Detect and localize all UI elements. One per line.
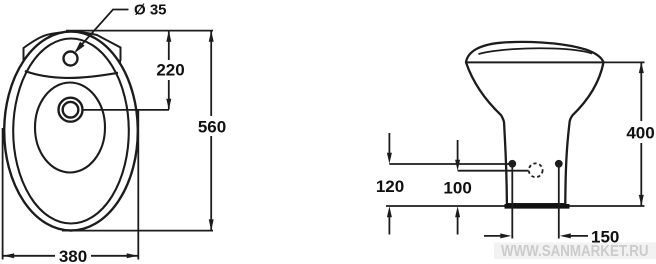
dimension 150: [484, 235, 588, 237]
outer rim ellipse: [4, 32, 138, 231]
bolt centre line right: [558, 164, 560, 239]
bottom extension line: [62, 230, 213, 232]
dimension 560 line: [210, 31, 212, 230]
bolt dot right: [555, 160, 563, 168]
drain level line (100): [458, 170, 529, 172]
svg-text:220: 220: [156, 61, 184, 80]
svg-text:120: 120: [376, 177, 404, 196]
220 arrows: [166, 31, 171, 42]
top surface back arc: [479, 48, 593, 54]
svg-text:400: 400: [626, 124, 654, 143]
rim line with right extension: [466, 61, 604, 63]
top extension line: [66, 30, 213, 32]
watermark: [494, 243, 656, 260]
bolt dot left: [508, 160, 516, 168]
drain outer circle: [59, 98, 83, 122]
560 arrows: [209, 31, 214, 42]
svg-text:380: 380: [59, 247, 87, 264]
svg-text:560: 560: [198, 118, 226, 137]
base thick bar: [505, 204, 570, 209]
leader arrowhead: [75, 42, 85, 53]
dimension 380 line: [3, 255, 137, 257]
tap centre extension line: [82, 109, 169, 111]
shelf (deck corners): [24, 32, 121, 72]
380 extension lines: [2, 128, 4, 260]
bolt centre line left: [511, 164, 513, 239]
dimension 120: [388, 133, 390, 235]
svg-text:WWW.SANMARKET.RU: WWW.SANMARKET.RU: [501, 243, 649, 260]
floor baseline: [386, 205, 645, 207]
basin oval: [35, 83, 105, 173]
tap hole (Ø35): [64, 52, 78, 66]
leader line for hole: [76, 10, 129, 52]
dimension 220 line: [168, 31, 170, 110]
drain inner circle: [63, 102, 79, 118]
bowl and pedestal outline: [466, 42, 604, 204]
dimension 100: [457, 140, 459, 235]
dimension 400: [640, 63, 642, 206]
dashed drain circle: [529, 163, 543, 177]
inlet level line (120): [389, 163, 509, 165]
380 arrows: [3, 253, 14, 258]
back edge wavy line: [25, 71, 118, 78]
svg-text:100: 100: [443, 179, 471, 198]
svg-text:Ø 35: Ø 35: [134, 2, 167, 19]
inner rim ellipse: [13, 39, 129, 224]
